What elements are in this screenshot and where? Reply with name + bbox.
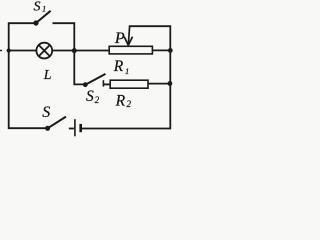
switch S dot [45, 126, 50, 131]
svg-text:1: 1 [125, 66, 129, 76]
switch S2 dot [83, 82, 88, 87]
svg-text:S: S [42, 104, 50, 121]
node A junction dot [72, 48, 77, 53]
node B junction dot [168, 48, 173, 53]
svg-text:S: S [86, 88, 94, 105]
node C junction dot [168, 81, 173, 86]
wire: R2 right lead to node C [148, 83, 170, 85]
battery short plate [79, 124, 82, 132]
wire: S2 fixed contact stub [102, 80, 104, 86]
wire: middle row lamp to R1 [52, 50, 109, 52]
svg-text:1: 1 [42, 3, 46, 13]
wire: top-left + left vertical + bottom-left run [9, 23, 48, 128]
svg-text:2: 2 [95, 95, 100, 105]
wire: battery left lead [69, 128, 74, 130]
potentiometer P wiper shaft [128, 26, 129, 43]
svg-text:P: P [114, 30, 125, 47]
svg-text:L: L [43, 68, 52, 83]
wire: R1 right lead to node B [152, 49, 170, 51]
lamp L [36, 43, 52, 59]
resistor R2 box [110, 80, 148, 88]
wire: left edge stub at node [0, 50, 2, 52]
switch S2 blade [85, 74, 105, 85]
wire: top right segment + drop to node A + S2 branch down [53, 23, 86, 84]
svg-text:R: R [113, 58, 124, 75]
switch S1 dot [33, 20, 38, 25]
node on left wire [7, 48, 11, 52]
resistor R1 box [109, 46, 152, 54]
svg-text:S: S [34, 0, 41, 15]
wire: middle row left (node to lamp) [9, 50, 37, 52]
svg-text:2: 2 [127, 99, 132, 109]
svg-text:R: R [115, 92, 126, 109]
wire: P top wire + right vertical + bottom wire from battery [82, 26, 171, 128]
wire: S2 contact to R2 [103, 83, 110, 85]
battery long plate [74, 119, 76, 136]
switch S1 blade [36, 11, 51, 23]
switch S blade [48, 117, 66, 129]
potentiometer P arrowhead [124, 37, 132, 45]
